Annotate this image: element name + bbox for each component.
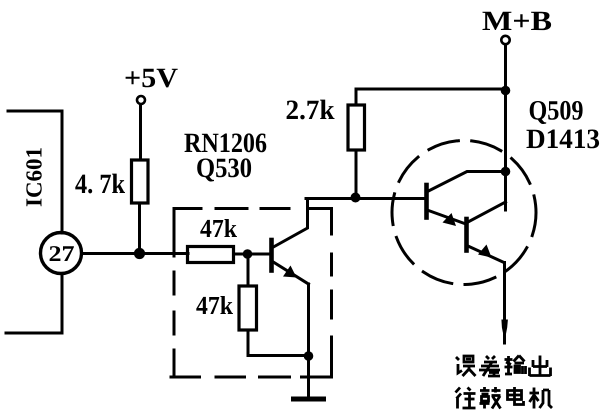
- IC601 box right vertical wire: [61, 111, 64, 333]
- transistor Q530 emitter: [273, 262, 309, 285]
- wire 2.7k bottom lead: [355, 150, 358, 197]
- char 差: [479, 356, 500, 376]
- junction node emitter/R3: [304, 351, 314, 361]
- resistor R1 label 4.7k: [75, 174, 125, 194]
- char 电: [508, 387, 524, 405]
- junction node collector1: [501, 167, 511, 177]
- Q509 label: [530, 101, 583, 124]
- IC601 box bottom line: [6, 332, 62, 335]
- junction node rail corner: [501, 86, 511, 96]
- output arrow: [501, 320, 508, 336]
- +5V terminal: [137, 96, 145, 104]
- transistor Q509b emitter: [469, 247, 504, 263]
- D1413 label: [527, 130, 600, 149]
- wire R3 bottom lead: [248, 330, 309, 356]
- transistor Q509a emitter arrow: [443, 213, 457, 226]
- wire +5V to R1: [139, 105, 142, 161]
- resistor R4 2.7k body: [348, 105, 365, 150]
- dashed box RN1206 right edge: [330, 209, 333, 378]
- IC601 box top line: [8, 110, 62, 113]
- junction node base/47k: [243, 249, 253, 259]
- label 往鼓电机 (to drum motor) hand-drawn: [456, 387, 553, 409]
- junction node R1/base wire: [134, 248, 145, 259]
- M+B label: [483, 12, 552, 30]
- Q530 label: [197, 158, 251, 181]
- wire Q530 emitter down to ground: [307, 284, 310, 397]
- wire output: [503, 263, 506, 344]
- wire Q530 collector to Q509 base: [306, 197, 426, 200]
- transistor Q509b emitter arrow: [478, 245, 492, 258]
- char 误: [456, 356, 476, 376]
- transistor Q509a collector: [429, 172, 504, 192]
- wire R2 right lead to Q530 base: [234, 253, 270, 256]
- junction node 2.7k/base wire: [351, 193, 361, 203]
- transistor Q530 collector: [273, 199, 308, 248]
- wire junction down to R3: [247, 254, 250, 286]
- IC601 label: [26, 148, 42, 206]
- pin 27 circle: [41, 233, 82, 274]
- resistor R2 47k (horizontal) body: [188, 247, 234, 263]
- wire M+B down: [504, 45, 507, 211]
- resistor R2 label 47k: [200, 219, 237, 237]
- char 鼓: [480, 387, 501, 409]
- dashed box RN1206 bottom edge: [171, 376, 332, 379]
- transistor Q509a emitter: [429, 211, 465, 224]
- label 误差输出 (error output) hand-drawn: [456, 356, 551, 377]
- char 往: [456, 388, 476, 409]
- resistor R3 47k (vertical) body: [239, 286, 257, 330]
- pin 27 label: [50, 246, 74, 261]
- resistor R1 4.7k body: [132, 160, 149, 203]
- resistor R3 label 47k: [196, 296, 233, 314]
- char 出: [530, 356, 551, 377]
- ground: [294, 397, 324, 402]
- char 输: [505, 356, 526, 375]
- transistor Q509b collector: [469, 202, 506, 222]
- transistor Q509b base bar: [464, 219, 469, 251]
- wire 2.7k top lead: [355, 89, 358, 105]
- resistor R4 label 2.7k: [287, 100, 335, 120]
- transistor Q509a base bar: [424, 185, 429, 218]
- wire pin27 to 47k resistor: [82, 252, 188, 255]
- dashed box RN1206 top edge: [174, 207, 332, 210]
- transistor Q530 emitter arrow: [283, 266, 297, 278]
- M+B terminal: [501, 36, 509, 44]
- transistor Q530 base bar: [269, 240, 274, 271]
- dashed circle Q509: [385, 133, 543, 291]
- dashed box RN1206 left edge: [173, 209, 176, 378]
- wire top rail to M+B: [356, 88, 506, 91]
- RN1206 label: [184, 133, 266, 152]
- +5V label: [126, 69, 178, 88]
- char 机: [530, 388, 553, 409]
- wire R1 bottom lead: [138, 203, 141, 254]
